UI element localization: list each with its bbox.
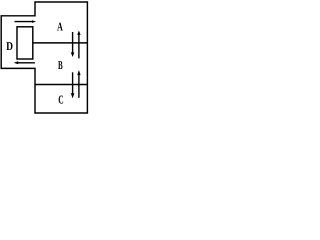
wire arrow left (below box D)	[14, 61, 35, 64]
svg-text:B: B	[58, 58, 63, 72]
wire arrow right (above box D)	[15, 20, 37, 23]
svg-text:A: A	[57, 20, 63, 34]
divider B/C	[35, 84, 87, 86]
svg-text:C: C	[58, 93, 63, 107]
box D	[17, 27, 33, 59]
divider A/B	[33, 42, 88, 44]
crossing B/C: up arrow	[77, 70, 80, 98]
crossing A/B: up arrow	[77, 31, 80, 59]
crossing A/B: down arrow	[71, 32, 75, 57]
crossing B/C: down arrow	[71, 72, 75, 98]
outer outline: main rectangle with open left wing	[1, 2, 87, 113]
svg-text:D: D	[6, 39, 13, 53]
